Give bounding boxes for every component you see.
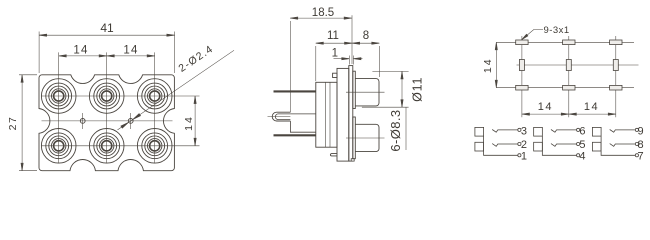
svg-text:8: 8	[638, 139, 644, 151]
svg-text:Ø11: Ø11	[410, 77, 424, 102]
svg-text:14: 14	[183, 115, 195, 131]
svg-text:8: 8	[363, 30, 369, 42]
svg-text:6-Ø8.3: 6-Ø8.3	[388, 109, 403, 151]
svg-text:14: 14	[538, 101, 553, 113]
svg-text:7: 7	[638, 151, 644, 163]
svg-text:14: 14	[73, 45, 88, 57]
svg-text:9-3x1: 9-3x1	[543, 25, 569, 36]
svg-text:41: 41	[100, 21, 114, 35]
svg-text:1: 1	[332, 48, 338, 60]
svg-text:9: 9	[638, 125, 644, 137]
svg-text:14: 14	[123, 45, 138, 57]
svg-text:5: 5	[579, 139, 585, 151]
svg-text:27: 27	[7, 116, 19, 131]
svg-text:4: 4	[579, 151, 585, 163]
svg-text:11: 11	[327, 30, 339, 42]
svg-text:18.5: 18.5	[312, 7, 334, 19]
svg-text:14: 14	[584, 101, 599, 113]
svg-text:1: 1	[521, 151, 527, 163]
svg-text:3: 3	[521, 125, 527, 137]
svg-text:2: 2	[521, 139, 527, 151]
svg-text:6: 6	[579, 125, 585, 137]
svg-text:14: 14	[482, 57, 494, 73]
